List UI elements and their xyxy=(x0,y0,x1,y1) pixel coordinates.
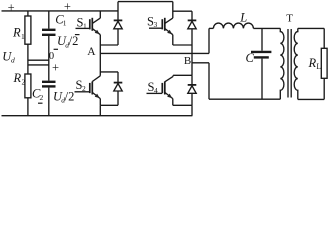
svg-text:2: 2 xyxy=(82,84,86,93)
svg-text:T: T xyxy=(286,13,293,25)
svg-text:0: 0 xyxy=(49,51,54,62)
svg-text:R: R xyxy=(13,71,22,85)
svg-text:3: 3 xyxy=(154,20,158,29)
svg-text:R: R xyxy=(12,26,21,40)
svg-text:+: + xyxy=(64,0,71,13)
svg-text:1: 1 xyxy=(83,22,87,31)
svg-text:2: 2 xyxy=(40,93,44,102)
svg-text:4: 4 xyxy=(154,86,158,95)
svg-text:+: + xyxy=(8,0,15,14)
svg-text:+: + xyxy=(52,61,59,75)
svg-text:C: C xyxy=(246,51,255,65)
svg-text:/2: /2 xyxy=(69,34,79,48)
svg-text:L: L xyxy=(316,62,321,71)
svg-text:A: A xyxy=(87,46,96,58)
svg-text:d: d xyxy=(11,56,15,65)
svg-text:1: 1 xyxy=(63,19,67,28)
svg-text:2: 2 xyxy=(22,77,26,86)
svg-text:1: 1 xyxy=(21,32,25,41)
svg-text:L: L xyxy=(239,10,247,24)
svg-text:R: R xyxy=(308,56,317,70)
svg-text:/2: /2 xyxy=(65,89,75,103)
svg-text:B: B xyxy=(184,55,191,67)
